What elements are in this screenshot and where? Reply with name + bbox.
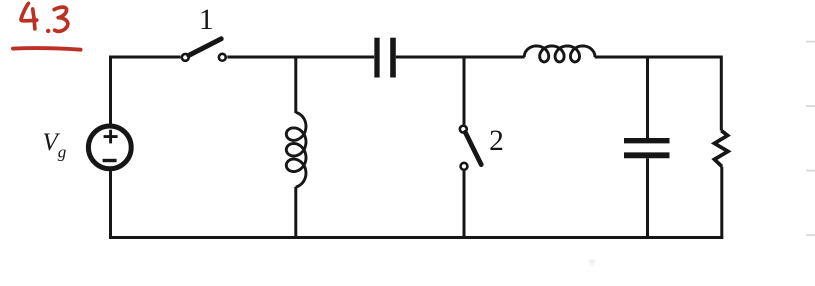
red underline: [13, 48, 81, 50]
wire from switch-2 node to inductor L2: [464, 56, 525, 59]
switch 2 blade: [465, 132, 481, 164]
wire from Vg - terminal down to bottom-left corner: [109, 170, 112, 239]
wire from top bus down to inductor L1: [294, 57, 297, 113]
problem number 4.3 (red handwriting): [21, 3, 68, 32]
switch 1 right contact: [219, 54, 226, 61]
capacitor C2 top plate: [624, 138, 670, 143]
switch 1 left contact: [182, 54, 189, 61]
wire from switch 1 to capacitor C1: [227, 56, 374, 59]
switch 2 bottom contact: [461, 163, 468, 170]
wire from Vg + terminal up and right to switch 1: [111, 57, 181, 125]
svg-text:1: 1: [199, 4, 214, 36]
switch 1 blade: [189, 39, 221, 56]
Vg + sign: [104, 130, 118, 144]
wire from C2 to bottom bus: [646, 158, 649, 237]
switch 2 top contact: [460, 126, 467, 133]
Vg - sign: [103, 159, 117, 162]
bottom bus wire: [109, 236, 723, 239]
resistor R1 (zigzag): [714, 131, 728, 167]
inductor L1 (vertical coil): [286, 113, 306, 188]
svg-text:2: 2: [489, 125, 504, 157]
inductor L2 (horizontal coil): [524, 46, 595, 62]
wire from resistor R1 to bottom-right corner: [720, 166, 723, 239]
svg-text:Vg: Vg: [43, 129, 67, 162]
voltage source Vg circle: [88, 126, 131, 169]
capacitor C1 right plate: [390, 38, 396, 78]
wire from L2 to top-right corner and down to resistor R1: [595, 57, 722, 131]
capacitor C1 left plate: [374, 38, 379, 78]
wire from switch 2 to bottom bus: [463, 170, 466, 237]
wire from top bus down to switch 2: [463, 57, 466, 125]
capacitor C2 bottom plate: [624, 152, 670, 158]
wire from top bus down to capacitor C2: [646, 57, 649, 138]
wire from C1 to node above switch 2: [396, 56, 464, 59]
wire from L1 to bottom bus: [294, 187, 297, 238]
